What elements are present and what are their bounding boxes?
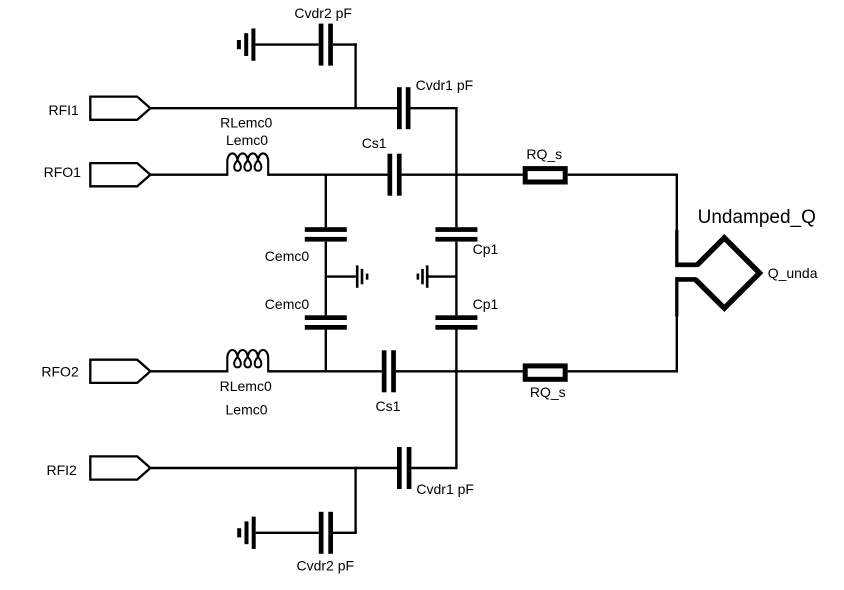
- wire C middle segment: [325, 242, 327, 315]
- wire RFI2 rail: [150, 467, 397, 469]
- wire vertical A bottom: [354, 467, 356, 533]
- svg-text:RLemc0: RLemc0: [220, 115, 272, 131]
- capacitor Cvdr2 (bottom): [319, 512, 333, 554]
- label Lemc0 (bottom): [226, 401, 268, 417]
- label Cemc0 (lower): [265, 296, 310, 312]
- component Undamped_Q (Q_unda) pins, leads and diamond: [675, 230, 759, 317]
- capacitor Cvdr2 (top): [319, 24, 333, 66]
- wire RFO2 to inductor: [150, 370, 227, 372]
- ground GND1 (top left): [237, 28, 256, 60]
- label Cvdr2 pF (bottom): [297, 558, 355, 574]
- svg-text:RFO2: RFO2: [41, 364, 79, 380]
- wire inductor to Cs1 bottom: [268, 370, 382, 372]
- wire Cs1 bottom to node B: [396, 370, 457, 372]
- svg-text:RQ_s: RQ_s: [530, 384, 566, 400]
- port RFO2: [90, 360, 150, 383]
- svg-text:RFI2: RFI2: [47, 462, 78, 478]
- capacitor Cvdr1 (top): [397, 87, 411, 129]
- label Cemc0 (upper): [265, 248, 310, 264]
- wire B lower segment: [455, 329, 457, 468]
- svg-text:Lemc0: Lemc0: [226, 132, 268, 148]
- capacitor Cs1 (bottom): [382, 350, 396, 392]
- wire C lower segment: [325, 329, 327, 371]
- wire GND1 to Cvdr2 top: [255, 43, 318, 45]
- label Q_unda: [768, 265, 818, 281]
- wire Cvdr1 top to corner B: [411, 107, 458, 109]
- label Cs1 (top): [362, 135, 387, 151]
- svg-text:Cs1: Cs1: [376, 398, 401, 414]
- wire Cvdr2 bottom to GND4: [256, 532, 319, 534]
- wire node B to RQ_s bottom: [456, 370, 522, 372]
- svg-text:Cvdr1 pF: Cvdr1 pF: [416, 77, 474, 93]
- capacitor Cvdr1 (bottom): [397, 447, 411, 489]
- label Cvdr1 pF (bottom): [416, 481, 474, 497]
- label RQ_s (bottom): [530, 384, 566, 400]
- svg-text:Cs1: Cs1: [362, 135, 387, 151]
- wire Cvdr1 bottom to corner B: [411, 467, 457, 469]
- port RFI1: [90, 97, 150, 120]
- wire D lower: [676, 316, 678, 373]
- wire D upper: [676, 174, 678, 232]
- svg-text:Q_unda: Q_unda: [768, 265, 818, 281]
- label RFI2: [47, 462, 78, 478]
- capacitor Cp1 (lower): [435, 315, 477, 329]
- label Cp1 (upper): [473, 241, 499, 257]
- inductor Lemc0 (top): [227, 153, 268, 176]
- port RFI2: [90, 456, 150, 479]
- wire Cs1 top to node B: [402, 173, 457, 175]
- svg-text:Undamped_Q: Undamped_Q: [698, 207, 816, 228]
- label RFO2: [41, 364, 79, 380]
- svg-text:RLemc0: RLemc0: [220, 378, 272, 394]
- wire ground stub left: [326, 275, 356, 277]
- label RFO1: [44, 164, 82, 180]
- label Lemc0 (top): [226, 132, 268, 148]
- ground GND4 (bottom left): [237, 517, 256, 549]
- label RQ_s (top): [526, 146, 562, 162]
- wire RQ_s bottom to corner D: [568, 370, 678, 372]
- wire RFI1 rail: [150, 107, 397, 109]
- wire RQ_s top to corner D: [568, 173, 678, 175]
- label Undamped_Q: [698, 207, 816, 228]
- wire B upper segment: [455, 108, 457, 227]
- label RLemc0 (bottom): [220, 378, 272, 394]
- capacitor Cemc0 (lower): [305, 315, 347, 329]
- ground GND3 (mid right): [417, 265, 429, 287]
- wire ground stub right: [429, 275, 457, 277]
- label RFI1: [49, 102, 80, 118]
- svg-text:Cemc0: Cemc0: [265, 296, 310, 312]
- ground GND2 (mid left): [356, 265, 369, 287]
- wire inductor to Cs1 top: [268, 173, 387, 175]
- svg-text:Cp1: Cp1: [473, 296, 499, 312]
- port RFO1: [90, 163, 150, 186]
- inductor Lemc0 (bottom): [227, 350, 268, 373]
- svg-text:Cp1: Cp1: [473, 241, 499, 257]
- capacitor Cp1 (upper): [435, 227, 477, 241]
- label Cp1 (lower): [473, 296, 499, 312]
- svg-text:Lemc0: Lemc0: [226, 401, 268, 417]
- wire node B to RQ_s top: [456, 173, 522, 175]
- capacitor Cs1 (top): [388, 154, 402, 196]
- wire RFO1 to inductor: [150, 173, 227, 175]
- svg-text:Cemc0: Cemc0: [265, 248, 310, 264]
- svg-text:Cvdr2 pF: Cvdr2 pF: [297, 558, 355, 574]
- wire corner A to Cvdr2 bottom: [333, 532, 357, 534]
- label Cs1 (bottom): [376, 398, 401, 414]
- label RLemc0 (top): [220, 115, 272, 131]
- svg-text:Cvdr1 pF: Cvdr1 pF: [416, 481, 474, 497]
- resistor RQ_s (top): [525, 169, 565, 182]
- label Cvdr1 pF (top): [416, 77, 474, 93]
- wire Cvdr2 top to corner A: [333, 43, 357, 45]
- svg-text:Cvdr2 pF: Cvdr2 pF: [294, 5, 352, 21]
- resistor RQ_s (bottom): [525, 366, 565, 379]
- wire vertical A top: [354, 43, 356, 108]
- svg-text:RQ_s: RQ_s: [526, 146, 562, 162]
- capacitor Cemc0 (upper): [305, 227, 347, 241]
- svg-text:RFI1: RFI1: [49, 102, 80, 118]
- wire C upper segment: [325, 175, 327, 228]
- svg-text:RFO1: RFO1: [44, 164, 82, 180]
- wire B middle segment: [455, 242, 457, 315]
- label Cvdr2 pF (top): [294, 5, 352, 21]
